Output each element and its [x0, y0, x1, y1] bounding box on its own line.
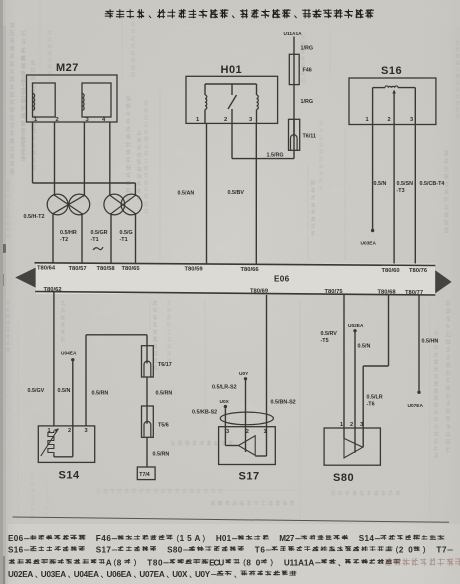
svg-text:3: 3: [226, 429, 229, 435]
svg-text:T6: T6: [255, 546, 266, 555]
svg-text:U02EA: U02EA: [8, 570, 33, 579]
wire M27 pin2: [54, 122, 56, 196]
svg-text:U07EA: U07EA: [139, 570, 164, 579]
wire H01 pin2 to T6/11: [231, 123, 233, 158]
svg-text:T80/75: T80/75: [325, 289, 344, 295]
svg-text:3: 3: [410, 117, 413, 123]
svg-text:T80/76: T80/76: [409, 268, 428, 274]
svg-text:T80/69: T80/69: [250, 289, 269, 295]
harness bus E06 bottom line: [35, 292, 435, 296]
svg-text:F46: F46: [96, 534, 112, 543]
svg-text:2: 2: [224, 117, 227, 123]
svg-text:U02EA: U02EA: [348, 323, 364, 329]
svg-text:0.5/RN: 0.5/RN: [156, 390, 173, 396]
wire T5/6 to T7/4: [146, 437, 148, 467]
svg-text:T80/66: T80/66: [241, 267, 260, 273]
svg-text:T80/62: T80/62: [44, 287, 62, 293]
svg-text:S17: S17: [239, 471, 260, 483]
svg-text:A: A: [106, 558, 112, 567]
S17 shield ellipse: [220, 412, 273, 425]
harness bus E06 top line: [35, 263, 436, 266]
watermark: [385, 558, 460, 565]
node U03EA: [371, 229, 374, 232]
svg-text:0.5/G: 0.5/G: [120, 230, 133, 236]
svg-text:U03EA: U03EA: [41, 570, 66, 579]
svg-text:H01: H01: [216, 534, 232, 543]
wire U0X to S17 pin3: [224, 408, 226, 445]
svg-text:-T1: -T1: [91, 237, 99, 243]
svg-text:ECU: ECU: [209, 558, 224, 567]
svg-text:T7/4: T7/4: [139, 472, 149, 478]
svg-text:U11A1A: U11A1A: [284, 31, 303, 37]
svg-text:S16: S16: [8, 546, 24, 555]
wire T80/75 to S80 pin1: [343, 294, 345, 439]
wire T80/68 step to S80 pin3: [388, 294, 390, 366]
svg-text:U06EA: U06EA: [107, 570, 132, 579]
bus left arrowhead: [15, 268, 35, 288]
svg-text:0.5/SN: 0.5/SN: [397, 181, 414, 187]
wire M27 pin3: [83, 122, 85, 196]
svg-text:2: 2: [246, 429, 249, 435]
wires to connector row: [52, 213, 54, 263]
M27 coil 1: [33, 94, 35, 111]
svg-text:U11A1A: U11A1A: [284, 558, 314, 567]
wire S16 pin1 to U03EA: [372, 125, 374, 230]
svg-text:0.5/N: 0.5/N: [58, 388, 71, 394]
S17 pickup triangle: [225, 445, 238, 447]
svg-text:T7: T7: [436, 546, 447, 555]
svg-text:0.5/GR: 0.5/GR: [91, 230, 108, 236]
svg-text:-T6: -T6: [367, 402, 375, 408]
svg-text:1/RG: 1/RG: [301, 45, 314, 51]
svg-text:T80: T80: [147, 558, 163, 567]
svg-text:U04EA: U04EA: [74, 570, 99, 579]
svg-text:T80/65: T80/65: [122, 266, 141, 272]
svg-text:U04EA: U04EA: [61, 351, 77, 357]
svg-text:0.5/RV: 0.5/RV: [321, 331, 338, 337]
svg-text:S80: S80: [167, 546, 183, 555]
S14 pin2 internal link: [72, 426, 74, 457]
svg-text:1: 1: [366, 117, 369, 123]
svg-text:1: 1: [340, 422, 343, 428]
node U07EA: [417, 391, 420, 394]
wire M27 pin1 routed right: [32, 122, 34, 183]
svg-text:8: 8: [117, 558, 122, 567]
svg-text:2: 2: [388, 117, 391, 123]
wire U0Y to S17 pin2: [245, 381, 247, 453]
svg-text:-T5: -T5: [321, 338, 329, 344]
svg-text:0.5/RN: 0.5/RN: [153, 452, 170, 458]
svg-text:E06: E06: [274, 275, 290, 284]
connector T6/11: [289, 119, 300, 150]
wire T80/77 to U07EA: [418, 295, 420, 392]
H01 internal top bar: [205, 83, 257, 85]
svg-text:-T1: -T1: [120, 237, 128, 243]
svg-text:T80/58: T80/58: [97, 266, 116, 272]
svg-text:M27: M27: [279, 534, 295, 543]
wire M27 pin4: [109, 122, 111, 196]
svg-text:F46: F46: [303, 68, 312, 74]
scan edge marks: [0, 244, 6, 253]
svg-text:U0Y: U0Y: [195, 570, 211, 579]
svg-text:-T3: -T3: [397, 188, 405, 194]
S16 potentiometer track: [373, 87, 385, 89]
svg-text:T80/57: T80/57: [69, 266, 87, 272]
svg-text:T80/64: T80/64: [37, 266, 56, 272]
svg-text:0.5/LR-S2: 0.5/LR-S2: [212, 384, 237, 390]
svg-text:2: 2: [350, 422, 353, 428]
svg-text:0.5/KB-S2: 0.5/KB-S2: [192, 410, 217, 416]
coolant temp sensor S14: [38, 426, 94, 463]
svg-text:S16: S16: [381, 65, 402, 77]
H01 secondary coil: [257, 95, 259, 109]
svg-text:U0Y: U0Y: [239, 371, 249, 377]
svg-text:0.5/LR: 0.5/LR: [367, 395, 383, 401]
svg-text:T5/6: T5/6: [158, 423, 169, 429]
S16 wiper arrow: [393, 92, 395, 125]
svg-text:2: 2: [56, 117, 59, 123]
wire H01 pin3 to T80/66: [255, 123, 257, 264]
svg-text:2: 2: [68, 428, 71, 434]
wire T6/17 to T5/6: [146, 377, 148, 406]
svg-text:T80/60: T80/60: [382, 268, 400, 274]
wire U11A1A down: [293, 37, 295, 159]
twisted pair left: [47, 194, 68, 215]
bus right arrowhead: [435, 270, 451, 293]
svg-text:0.5/AN: 0.5/AN: [178, 191, 195, 197]
svg-text:0.5/HN: 0.5/HN: [422, 338, 439, 344]
S80 sensor triangle: [344, 438, 363, 458]
svg-text:H01: H01: [221, 64, 243, 76]
wire U02EA to S80 pin2: [354, 333, 356, 453]
M27 coil 2: [82, 94, 84, 111]
svg-text:0.5/BV: 0.5/BV: [228, 190, 245, 196]
wire U04EA to S14 pin2: [72, 362, 74, 426]
svg-text:0.5/GV: 0.5/GV: [28, 388, 45, 394]
connector T6/17: [142, 346, 154, 377]
svg-text:-T2: -T2: [60, 237, 68, 243]
svg-text:0.5/CB-T4: 0.5/CB-T4: [420, 181, 445, 187]
svg-text:U07EA: U07EA: [408, 403, 424, 409]
svg-text:T80/68: T80/68: [378, 290, 397, 296]
fuse F46: [289, 54, 299, 84]
svg-text:S14: S14: [359, 534, 375, 543]
schematic bottom border: [13, 517, 450, 522]
H01 primary coil: [205, 95, 207, 109]
svg-text:T6/11: T6/11: [303, 134, 317, 140]
svg-text:U0X: U0X: [220, 399, 230, 405]
H01 breaker switch: [231, 84, 233, 95]
svg-text:1/RG: 1/RG: [301, 99, 314, 105]
svg-text:T80/59: T80/59: [185, 266, 204, 272]
svg-text:U0X: U0X: [172, 570, 188, 579]
connector T5/6: [142, 406, 154, 437]
twisted pair right: [104, 194, 125, 215]
svg-text:0.5/H-T2: 0.5/H-T2: [24, 214, 45, 220]
svg-text:T6/17: T6/17: [158, 362, 172, 368]
svg-text:E06: E06: [8, 534, 24, 543]
wire S14 pin3 to T6/17 chain: [85, 335, 87, 426]
svg-text:0.5/RN: 0.5/RN: [92, 391, 109, 397]
wire H01 pin1 to T80/59: [206, 123, 208, 264]
svg-text:3: 3: [85, 428, 88, 434]
wire S16 pin3 to T80/76: [414, 125, 416, 266]
wire S16 pin2 to T80/60: [393, 125, 395, 266]
svg-text:0.5/N: 0.5/N: [358, 344, 371, 350]
svg-text:3: 3: [360, 422, 363, 428]
svg-text:S80: S80: [333, 472, 354, 484]
svg-text:0.5/N: 0.5/N: [374, 181, 387, 187]
svg-text:15A: 15A: [180, 534, 201, 543]
svg-text:U03EA: U03EA: [361, 241, 377, 247]
svg-text:1.5/RG: 1.5/RG: [267, 152, 284, 158]
svg-text:S17: S17: [96, 546, 112, 555]
svg-text:S14: S14: [59, 470, 80, 482]
svg-text:0.5/HR: 0.5/HR: [60, 230, 77, 236]
svg-text:M27: M27: [56, 62, 79, 74]
svg-text:0.5/BN-S2: 0.5/BN-S2: [271, 399, 296, 405]
svg-text:1: 1: [264, 429, 267, 435]
twist mark: [93, 247, 103, 250]
wire T80/69 to S17 pin1: [266, 295, 268, 456]
svg-text:T80/77: T80/77: [405, 290, 423, 296]
S14 thermistor: [48, 431, 54, 455]
title: ignition coil / throttle position / phase / air pressure sensors: [105, 9, 374, 18]
wire T80/62 to S14 pin1: [53, 292, 55, 426]
connector T7/4: [137, 467, 155, 480]
